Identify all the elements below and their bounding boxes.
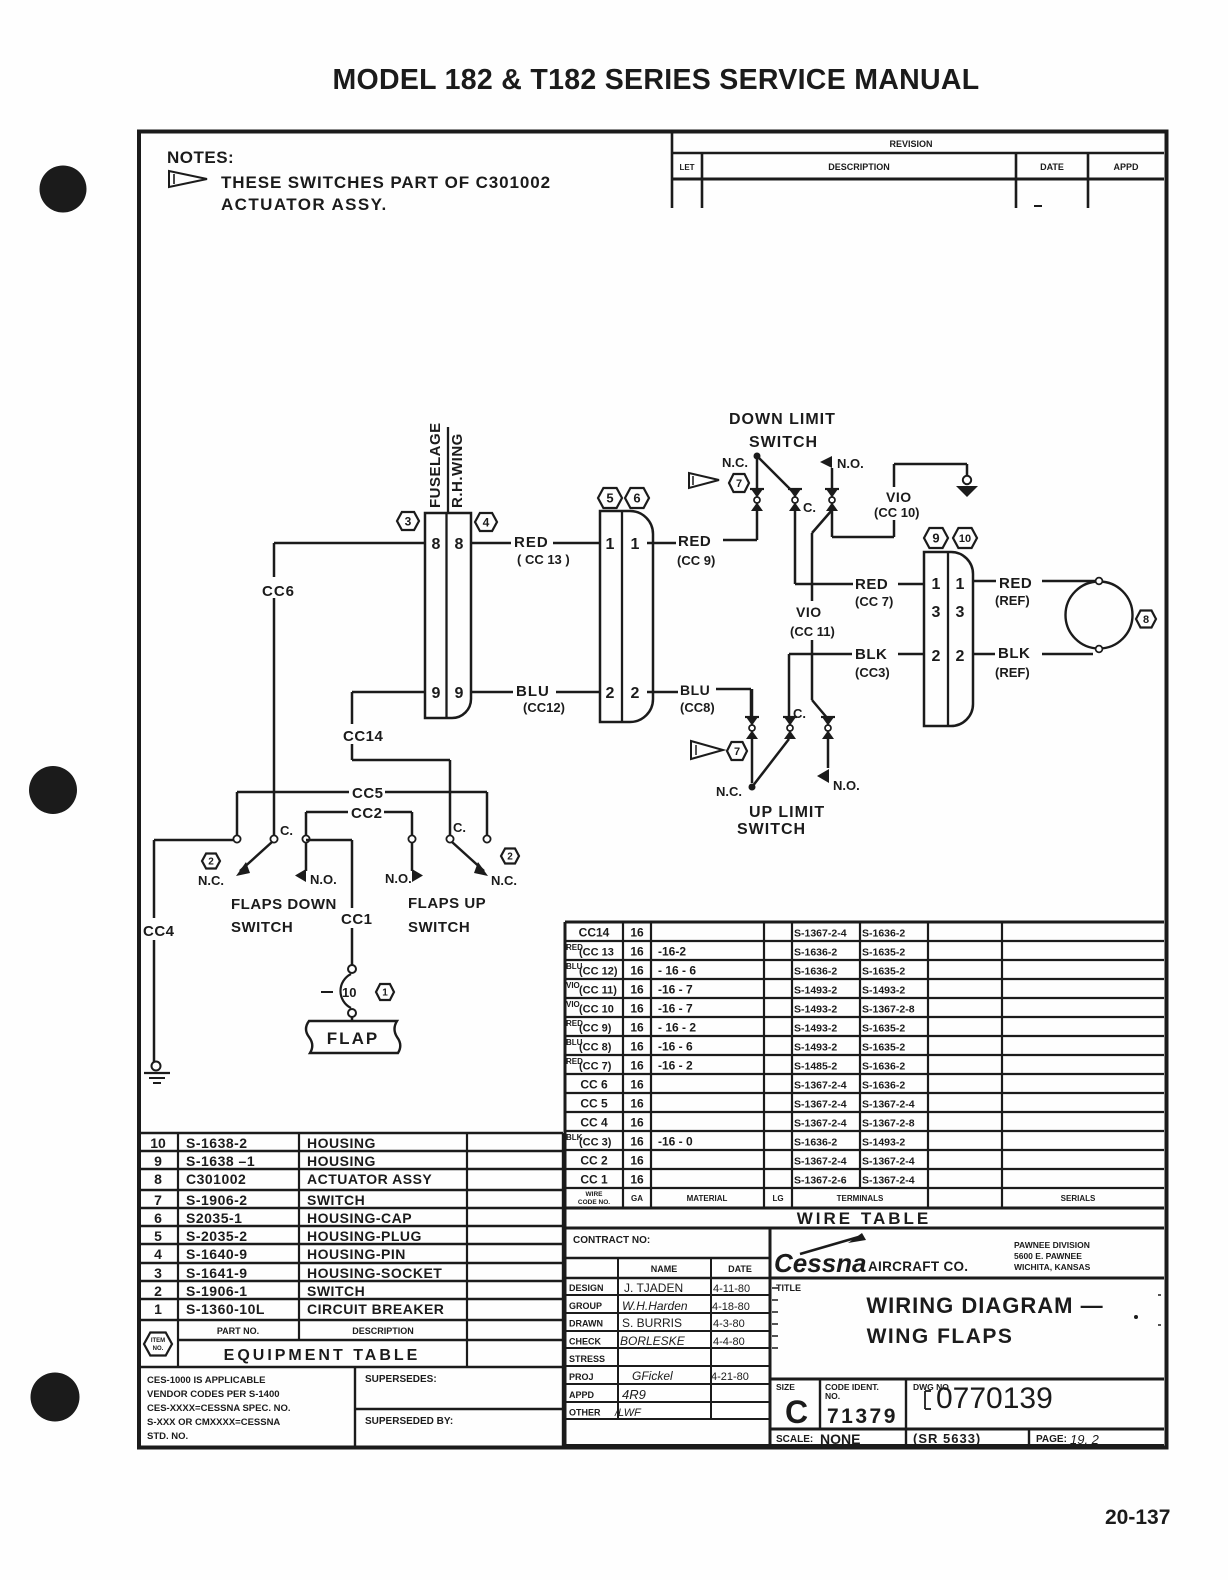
- svg-text:S-1638-2: S-1638-2: [186, 1135, 248, 1151]
- svg-text:APPD: APPD: [569, 1390, 595, 1400]
- svg-text:SWITCH: SWITCH: [307, 1283, 365, 1299]
- svg-text:S-1636-2: S-1636-2: [862, 1061, 905, 1073]
- svg-text:6: 6: [154, 1210, 162, 1226]
- svg-text:1: 1: [956, 576, 965, 593]
- svg-text:5: 5: [154, 1228, 162, 1244]
- svg-text:CC14: CC14: [343, 728, 384, 745]
- svg-text:APPD: APPD: [1113, 162, 1139, 172]
- svg-text:S-1906-2: S-1906-2: [186, 1192, 248, 1208]
- svg-text:DATE: DATE: [728, 1264, 752, 1274]
- svg-text:S-1636-2: S-1636-2: [794, 1137, 837, 1149]
- svg-text:16: 16: [630, 1097, 644, 1111]
- svg-text:(CC 9): (CC 9): [579, 1023, 612, 1035]
- svg-text:S-1367-2-4: S-1367-2-4: [794, 1118, 847, 1130]
- svg-text:10: 10: [959, 533, 971, 545]
- svg-text:HOUSING: HOUSING: [307, 1135, 376, 1151]
- svg-text:DOWN LIMIT: DOWN LIMIT: [729, 411, 836, 428]
- svg-text:-16 - 7: -16 - 7: [658, 1002, 693, 1016]
- svg-text:J. TJADEN: J. TJADEN: [624, 1281, 683, 1295]
- svg-text:9: 9: [932, 531, 939, 546]
- svg-text:16: 16: [630, 945, 644, 959]
- svg-text:CC 4: CC 4: [580, 1116, 608, 1130]
- svg-text:S-1493-2: S-1493-2: [862, 985, 905, 997]
- svg-text:4: 4: [154, 1246, 162, 1262]
- svg-text:C.: C.: [280, 823, 293, 838]
- svg-text:SERIALS: SERIALS: [1061, 1194, 1096, 1203]
- svg-text:WIRE: WIRE: [586, 1191, 604, 1198]
- svg-text:C301002: C301002: [186, 1171, 246, 1187]
- svg-text:STRESS: STRESS: [569, 1354, 605, 1364]
- svg-text:CIRCUIT BREAKER: CIRCUIT BREAKER: [307, 1301, 444, 1317]
- svg-text:2: 2: [154, 1283, 162, 1299]
- svg-text:DESCRIPTION: DESCRIPTION: [352, 1326, 414, 1336]
- svg-text:S-1640-9: S-1640-9: [186, 1246, 248, 1262]
- svg-text:W.H.Harden: W.H.Harden: [622, 1299, 688, 1313]
- svg-text:CC14: CC14: [579, 926, 610, 940]
- svg-text:S-XXX OR CMXXXX=CESSNA: S-XXX OR CMXXXX=CESSNA: [147, 1417, 280, 1428]
- svg-text:N.O.: N.O.: [837, 456, 864, 471]
- svg-text:-16 - 0: -16 - 0: [658, 1135, 693, 1149]
- svg-text:CC6: CC6: [262, 583, 295, 600]
- svg-text:NAME: NAME: [651, 1264, 678, 1274]
- svg-text:VIO: VIO: [566, 1000, 580, 1009]
- svg-text:UP LIMIT: UP LIMIT: [749, 804, 825, 821]
- svg-text:NO.: NO.: [825, 1391, 840, 1401]
- svg-text:2: 2: [956, 648, 965, 665]
- svg-text:S-1367-2-4: S-1367-2-4: [794, 928, 847, 940]
- svg-text:-16 - 6: -16 - 6: [658, 1040, 693, 1054]
- svg-text:FUSELAGE: FUSELAGE: [427, 422, 444, 508]
- svg-text:FLAP: FLAP: [327, 1029, 379, 1048]
- svg-text:MODEL 182 & T182 SERIES SERVIC: MODEL 182 & T182 SERIES SERVICE MANUAL: [332, 64, 979, 96]
- svg-text:CC5: CC5: [352, 785, 384, 802]
- svg-text:- 16 - 2: - 16 - 2: [658, 1021, 696, 1035]
- svg-text:C.: C.: [803, 500, 816, 515]
- svg-text:VIO: VIO: [886, 489, 912, 505]
- svg-text:71379: 71379: [827, 1405, 898, 1428]
- svg-text:S-1635-2: S-1635-2: [862, 1023, 905, 1035]
- svg-text:LET: LET: [679, 163, 694, 172]
- svg-text:2: 2: [932, 648, 941, 665]
- svg-text:CC1: CC1: [341, 911, 373, 928]
- svg-text:MATERIAL: MATERIAL: [687, 1194, 728, 1203]
- svg-text:-16 - 2: -16 - 2: [658, 1059, 693, 1073]
- svg-text:4-4-80: 4-4-80: [713, 1336, 745, 1348]
- svg-text:1: 1: [606, 536, 615, 553]
- svg-text:(CC 9): (CC 9): [677, 553, 715, 568]
- svg-text:- 16 - 6: - 16 - 6: [658, 964, 696, 978]
- svg-text:N.C.: N.C.: [722, 455, 748, 470]
- svg-text:(SR 5633): (SR 5633): [913, 1431, 981, 1446]
- svg-text:GROUP: GROUP: [569, 1301, 602, 1311]
- svg-text:S-1367-2-8: S-1367-2-8: [862, 1118, 915, 1130]
- svg-text:C.: C.: [453, 820, 466, 835]
- svg-text:CC 2: CC 2: [580, 1154, 608, 1168]
- svg-text:S-1635-2: S-1635-2: [862, 966, 905, 978]
- svg-text:WING FLAPS: WING FLAPS: [867, 1325, 1014, 1348]
- svg-text:S2035-1: S2035-1: [186, 1210, 242, 1226]
- svg-text:16: 16: [630, 1040, 644, 1054]
- svg-text:BLU: BLU: [680, 682, 710, 698]
- svg-text:CC 5: CC 5: [580, 1097, 608, 1111]
- svg-text:VENDOR CODES PER S-1400: VENDOR CODES PER S-1400: [147, 1389, 280, 1400]
- svg-text:(CC12): (CC12): [523, 700, 565, 715]
- svg-text:BLK: BLK: [855, 646, 887, 663]
- svg-text:CC4: CC4: [143, 923, 175, 940]
- svg-text:S-1367-2-8: S-1367-2-8: [862, 1004, 915, 1016]
- svg-text:(CC3): (CC3): [855, 665, 890, 680]
- svg-text:PAGE:: PAGE:: [1036, 1434, 1067, 1445]
- svg-text:WICHITA, KANSAS: WICHITA, KANSAS: [1014, 1262, 1091, 1272]
- svg-text:(CC 12): (CC 12): [579, 966, 618, 978]
- svg-text:(CC 7): (CC 7): [579, 1061, 612, 1073]
- svg-text:S-1493-2: S-1493-2: [794, 985, 837, 997]
- svg-text:S-1493-2: S-1493-2: [862, 1137, 905, 1149]
- svg-text:S-1367-2-6: S-1367-2-6: [794, 1175, 847, 1187]
- svg-text:8: 8: [455, 536, 464, 553]
- svg-text:BLU: BLU: [516, 683, 550, 700]
- svg-text:STD. NO.: STD. NO.: [147, 1431, 188, 1442]
- svg-text:PAWNEE DIVISION: PAWNEE DIVISION: [1014, 1240, 1090, 1250]
- svg-text:S-1636-2: S-1636-2: [794, 947, 837, 959]
- svg-text:EQUIPMENT TABLE: EQUIPMENT TABLE: [224, 1347, 421, 1364]
- svg-text:3: 3: [405, 514, 412, 528]
- svg-text:BLK: BLK: [998, 645, 1030, 662]
- svg-text:S-1367-2-4: S-1367-2-4: [794, 1080, 847, 1092]
- svg-text:HOUSING: HOUSING: [307, 1153, 376, 1169]
- svg-text:HOUSING-CAP: HOUSING-CAP: [307, 1210, 412, 1226]
- svg-text:CHECK: CHECK: [569, 1336, 602, 1346]
- svg-text:3: 3: [154, 1265, 162, 1281]
- svg-text:9: 9: [432, 685, 441, 702]
- svg-text:2: 2: [606, 685, 615, 702]
- svg-text:DRAWN: DRAWN: [569, 1319, 603, 1329]
- svg-text:SWITCH: SWITCH: [749, 434, 818, 451]
- svg-text:S-1493-2: S-1493-2: [794, 1042, 837, 1054]
- svg-text:C: C: [785, 1394, 808, 1430]
- svg-text:DATE: DATE: [1040, 162, 1064, 172]
- svg-text:S-1367-2-4: S-1367-2-4: [794, 1099, 847, 1111]
- svg-text:(CC 8): (CC 8): [579, 1042, 612, 1054]
- svg-text:WIRE TABLE: WIRE TABLE: [797, 1209, 932, 1228]
- svg-text:S-1638 –1: S-1638 –1: [186, 1153, 255, 1169]
- svg-text:CES-XXXX=CESSNA SPEC. NO.: CES-XXXX=CESSNA SPEC. NO.: [147, 1403, 291, 1414]
- svg-text:16: 16: [630, 983, 644, 997]
- svg-text:VIO: VIO: [796, 604, 822, 620]
- svg-text:4R9: 4R9: [622, 1387, 646, 1402]
- svg-text:HOUSING-PLUG: HOUSING-PLUG: [307, 1228, 422, 1244]
- svg-text:(CC 7): (CC 7): [855, 594, 893, 609]
- svg-text:3: 3: [956, 604, 965, 621]
- svg-text:DESCRIPTION: DESCRIPTION: [828, 162, 890, 172]
- svg-text:8: 8: [154, 1171, 162, 1187]
- svg-text:S-1367-2-4: S-1367-2-4: [862, 1175, 915, 1187]
- svg-text:2: 2: [208, 857, 214, 868]
- svg-text:HOUSING-SOCKET: HOUSING-SOCKET: [307, 1265, 442, 1281]
- svg-text:S-1367-2-4: S-1367-2-4: [862, 1099, 915, 1111]
- svg-text:S-1635-2: S-1635-2: [862, 1042, 905, 1054]
- svg-text:S-2035-2: S-2035-2: [186, 1228, 248, 1244]
- svg-text:FLAPS UP: FLAPS UP: [408, 895, 486, 912]
- svg-text:NONE: NONE: [820, 1431, 860, 1447]
- svg-text:SWITCH: SWITCH: [307, 1192, 365, 1208]
- svg-text:Cessna: Cessna: [774, 1248, 867, 1278]
- svg-text:ITEM: ITEM: [151, 1338, 165, 1344]
- svg-text:GFickel: GFickel: [632, 1369, 673, 1383]
- svg-text:SWITCH: SWITCH: [408, 919, 470, 936]
- svg-text:S-1360-10L: S-1360-10L: [186, 1301, 265, 1317]
- svg-text:SWITCH: SWITCH: [231, 919, 293, 936]
- svg-text:CODE NO.: CODE NO.: [578, 1199, 610, 1206]
- svg-text:CONTRACT NO:: CONTRACT NO:: [573, 1235, 650, 1246]
- svg-text:-16-2: -16-2: [658, 945, 686, 959]
- svg-text:19. 2: 19. 2: [1070, 1432, 1100, 1447]
- svg-text:AIRCRAFT CO.: AIRCRAFT CO.: [868, 1259, 968, 1274]
- svg-text:8: 8: [432, 536, 441, 553]
- svg-text:S-1636-2: S-1636-2: [794, 966, 837, 978]
- svg-text:16: 16: [630, 1116, 644, 1130]
- svg-text:RED: RED: [514, 534, 549, 551]
- svg-text:(CC 13: (CC 13: [579, 947, 614, 959]
- svg-text:9: 9: [455, 685, 464, 702]
- svg-text:S-1636-2: S-1636-2: [862, 928, 905, 940]
- svg-text:RED: RED: [678, 533, 711, 550]
- svg-text:WIRING DIAGRAM —: WIRING DIAGRAM —: [866, 1293, 1103, 1318]
- svg-text:5600 E. PAWNEE: 5600 E. PAWNEE: [1014, 1251, 1082, 1261]
- svg-text:SIZE: SIZE: [776, 1382, 795, 1392]
- svg-text:16: 16: [630, 1154, 644, 1168]
- svg-text:/LWF: /LWF: [614, 1407, 642, 1419]
- svg-text:PART NO.: PART NO.: [217, 1326, 259, 1336]
- svg-text:SWITCH: SWITCH: [737, 821, 806, 838]
- svg-text:NOTES:: NOTES:: [167, 148, 234, 167]
- svg-text:4-11-80: 4-11-80: [713, 1283, 750, 1295]
- svg-text:ACTUATOR ASSY.: ACTUATOR ASSY.: [221, 195, 388, 214]
- svg-text:0770139: 0770139: [936, 1382, 1053, 1415]
- svg-text:9: 9: [154, 1153, 162, 1169]
- svg-text:(CC 10): (CC 10): [874, 505, 920, 520]
- svg-text:C.: C.: [793, 706, 806, 721]
- svg-text:(CC 11): (CC 11): [579, 985, 617, 997]
- svg-text:FLAPS DOWN: FLAPS DOWN: [231, 896, 337, 913]
- svg-text:RED: RED: [855, 576, 888, 593]
- svg-text:4-21-80: 4-21-80: [711, 1371, 749, 1383]
- svg-text:S-1367-2-4: S-1367-2-4: [862, 1156, 915, 1168]
- svg-text:TITLE: TITLE: [776, 1283, 801, 1293]
- svg-text:N.C.: N.C.: [716, 784, 742, 799]
- svg-text:6: 6: [633, 491, 640, 506]
- svg-text:2: 2: [631, 685, 640, 702]
- svg-text:(CC 3): (CC 3): [579, 1137, 612, 1149]
- svg-text:10: 10: [342, 985, 356, 1000]
- svg-text:16: 16: [630, 1135, 644, 1149]
- svg-text:1: 1: [932, 576, 941, 593]
- svg-text:CC2: CC2: [351, 805, 383, 822]
- svg-text:S-1635-2: S-1635-2: [862, 947, 905, 959]
- svg-text:1: 1: [382, 988, 388, 999]
- svg-text:7: 7: [154, 1192, 162, 1208]
- svg-text:4-18-80: 4-18-80: [712, 1301, 750, 1313]
- svg-text:(REF): (REF): [995, 593, 1030, 608]
- svg-text:16: 16: [630, 1002, 644, 1016]
- svg-text:VIO: VIO: [566, 981, 580, 990]
- svg-text:ACTUATOR ASSY: ACTUATOR ASSY: [307, 1171, 432, 1187]
- svg-text:CC 1: CC 1: [580, 1173, 608, 1187]
- svg-text:( CC 13 ): ( CC 13 ): [517, 552, 570, 567]
- svg-text:THESE SWITCHES PART OF C301002: THESE SWITCHES PART OF C301002: [221, 173, 551, 192]
- svg-text:7: 7: [736, 478, 742, 490]
- svg-text:N.C.: N.C.: [198, 873, 224, 888]
- svg-text:10: 10: [150, 1135, 166, 1151]
- svg-text:CES-1000 IS APPLICABLE: CES-1000 IS APPLICABLE: [147, 1375, 265, 1386]
- svg-text:1: 1: [631, 536, 640, 553]
- svg-text:TERMINALS: TERMINALS: [837, 1194, 884, 1203]
- svg-text:HOUSING-PIN: HOUSING-PIN: [307, 1246, 406, 1262]
- svg-text:5: 5: [606, 491, 613, 506]
- svg-text:16: 16: [630, 1059, 644, 1073]
- svg-text:N.O.: N.O.: [310, 872, 337, 887]
- svg-text:8: 8: [1143, 614, 1149, 626]
- svg-text:SUPERSEDES:: SUPERSEDES:: [365, 1374, 437, 1385]
- svg-text:S-1493-2: S-1493-2: [794, 1004, 837, 1016]
- svg-text:LG: LG: [772, 1194, 783, 1203]
- svg-text:N.C.: N.C.: [491, 873, 517, 888]
- svg-text:NO.: NO.: [153, 1346, 164, 1352]
- svg-text:DESIGN: DESIGN: [569, 1283, 604, 1293]
- svg-text:R.H.WING: R.H.WING: [449, 433, 466, 508]
- svg-text:4-3-80: 4-3-80: [713, 1318, 745, 1330]
- svg-text:4: 4: [483, 515, 490, 529]
- svg-text:SCALE:: SCALE:: [776, 1434, 813, 1445]
- svg-text:(REF): (REF): [995, 665, 1030, 680]
- svg-text:3: 3: [932, 604, 941, 621]
- svg-text:PROJ: PROJ: [569, 1372, 594, 1382]
- svg-text:16: 16: [630, 926, 644, 940]
- svg-text:16: 16: [630, 1021, 644, 1035]
- svg-text:2: 2: [507, 852, 513, 863]
- svg-text:S-1485-2: S-1485-2: [794, 1061, 837, 1073]
- svg-text:(CC8): (CC8): [680, 700, 715, 715]
- svg-text:(CC 10: (CC 10: [579, 1004, 614, 1016]
- svg-text:16: 16: [630, 1078, 644, 1092]
- svg-text:S. BURRIS: S. BURRIS: [622, 1316, 682, 1330]
- svg-text:(CC 11): (CC 11): [790, 624, 835, 639]
- svg-text:N.O.: N.O.: [833, 778, 860, 793]
- svg-text:S-1906-1: S-1906-1: [186, 1283, 248, 1299]
- svg-text:RED: RED: [999, 575, 1032, 592]
- svg-text:S-1641-9: S-1641-9: [186, 1265, 248, 1281]
- svg-text:CC 6: CC 6: [580, 1078, 608, 1092]
- svg-text:BORLESKE: BORLESKE: [620, 1334, 686, 1348]
- svg-text:S-1493-2: S-1493-2: [794, 1023, 837, 1035]
- svg-text:20-137: 20-137: [1105, 1506, 1170, 1529]
- svg-text:16: 16: [630, 1173, 644, 1187]
- svg-text:OTHER: OTHER: [569, 1408, 601, 1418]
- svg-text:S-1367-2-4: S-1367-2-4: [794, 1156, 847, 1168]
- svg-text:GA: GA: [631, 1194, 643, 1203]
- svg-text:-16 - 7: -16 - 7: [658, 983, 693, 997]
- svg-text:REVISION: REVISION: [889, 139, 932, 149]
- svg-text:N.O.: N.O.: [385, 871, 412, 886]
- svg-text:SUPERSEDED BY:: SUPERSEDED BY:: [365, 1416, 453, 1427]
- svg-text:S-1636-2: S-1636-2: [862, 1080, 905, 1092]
- svg-text:16: 16: [630, 964, 644, 978]
- svg-text:7: 7: [734, 746, 740, 758]
- svg-text:1: 1: [154, 1301, 162, 1317]
